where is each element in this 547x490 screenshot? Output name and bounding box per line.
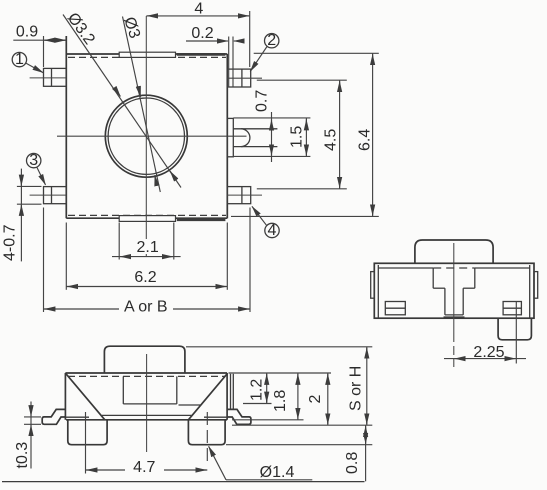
side ground tab right (227, 118, 277, 156)
svg-text:S or H: S or H (348, 366, 365, 411)
cover tab bottom-left (119, 216, 175, 222)
dim 4.7 (86, 412, 208, 476)
svg-text:t0.3: t0.3 (14, 442, 31, 469)
contact plate line (179, 404, 202, 406)
dim 6.2 (66, 223, 227, 290)
SIDEVIEW (371, 240, 538, 367)
dim t0.3 (14, 402, 41, 469)
svg-text:1: 1 (15, 51, 24, 68)
svg-text:3: 3 (29, 152, 38, 169)
pin 2 top-right (227, 69, 262, 87)
callout 4 (252, 206, 279, 239)
svg-text:4-0.7: 4-0.7 (2, 224, 19, 261)
cover skirt left diagonal (66, 374, 105, 420)
lead inner lines front (66, 416, 89, 418)
ext foot center (515, 302, 517, 364)
body top edge front (65, 372, 227, 374)
cover tab top-left (119, 52, 175, 57)
leader dia 3 (120, 15, 160, 192)
body outline top view (66, 36, 227, 218)
inner wall right (529, 265, 531, 318)
body outline side (374, 263, 534, 318)
callout 1 (12, 51, 43, 73)
svg-text:1.8: 1.8 (272, 390, 289, 412)
svg-text:6.4: 6.4 (356, 129, 373, 151)
base bottom line (66, 419, 227, 421)
side tab left (371, 272, 375, 299)
stem front (123, 376, 177, 404)
body left edge front (64, 373, 66, 420)
leader dia 3.2 (63, 10, 181, 188)
dim 0.2 (186, 25, 243, 42)
foot side (498, 318, 531, 340)
centerline front (146, 354, 148, 452)
dim 1.2 (243, 373, 272, 404)
TOPVIEW (2, 1, 379, 316)
dim 0.7 right (233, 90, 310, 162)
callout 3 (27, 152, 46, 185)
body right edges front (226, 373, 228, 420)
callout 2 (250, 32, 279, 71)
ext body top right (229, 372, 332, 374)
hidden edge dashed front (68, 375, 226, 377)
vertical centerline (145, 16, 147, 257)
svg-text:0.9: 0.9 (16, 24, 38, 41)
dim 4-0.7 left (2, 169, 42, 262)
svg-text:0.2: 0.2 (191, 25, 213, 42)
cover skirt right diagonal (188, 374, 227, 420)
button front (104, 346, 184, 373)
pin 4 bottom-right (227, 187, 262, 204)
foot left front (68, 420, 107, 445)
inner wall left (377, 265, 379, 318)
dim 6.4 right (231, 53, 379, 216)
pin 1 top-left (30, 68, 67, 86)
svg-text:A or B: A or B (124, 299, 168, 316)
dim 4.5 right (257, 80, 347, 189)
FRONTVIEW (2, 346, 372, 481)
foot right front (188, 420, 225, 445)
button circle outer (105, 95, 187, 177)
svg-text:Ø1.4: Ø1.4 (260, 464, 295, 481)
dim 2.25 (444, 344, 526, 361)
cover tab top-right thick (177, 53, 226, 56)
seating plane line (2, 481, 365, 483)
svg-text:0.8: 0.8 (344, 452, 361, 474)
dim S or H (348, 347, 367, 425)
hidden edge dashed bottom (68, 214, 226, 216)
lead left front (42, 409, 66, 424)
extension lines 0.2 (228, 37, 230, 88)
svg-text:4.7: 4.7 (133, 459, 155, 476)
centerline side (453, 243, 455, 367)
svg-text:4: 4 (268, 222, 277, 239)
svg-text:2.1: 2.1 (136, 239, 158, 256)
hidden edge dashed top (68, 56, 226, 58)
terminal left side (385, 302, 405, 315)
svg-text:0.7: 0.7 (254, 90, 271, 112)
dim 2.1 (112, 223, 181, 260)
svg-text:1.2: 1.2 (249, 379, 266, 401)
dim 1.5 right (289, 119, 307, 157)
cover inner top line (378, 267, 529, 269)
terminal right side (503, 302, 521, 315)
dim 0.9 (13, 24, 66, 68)
dim 2 (232, 373, 372, 425)
svg-text:1.5: 1.5 (289, 126, 306, 148)
cover tab bottom-right thick (177, 218, 226, 221)
button circle inner (108, 98, 184, 174)
horizontal centerline (57, 135, 247, 137)
svg-text:4.5: 4.5 (323, 129, 340, 151)
ext button top right (186, 346, 372, 348)
leader dia 1.4 (209, 446, 313, 481)
button side (415, 240, 493, 263)
dim 1.8 (232, 373, 304, 420)
side tab right (534, 272, 538, 299)
dim 4 (146, 1, 249, 68)
svg-text:2: 2 (267, 32, 276, 49)
svg-text:2: 2 (307, 395, 324, 404)
dim 0.8 (226, 425, 372, 481)
base inner line (102, 414, 192, 416)
svg-text:4: 4 (194, 1, 203, 18)
lead right front (227, 409, 251, 424)
svg-text:6.2: 6.2 (134, 269, 156, 286)
pin 3 bottom-left (30, 187, 67, 204)
stem side (433, 268, 475, 317)
dim A or B (44, 208, 251, 316)
